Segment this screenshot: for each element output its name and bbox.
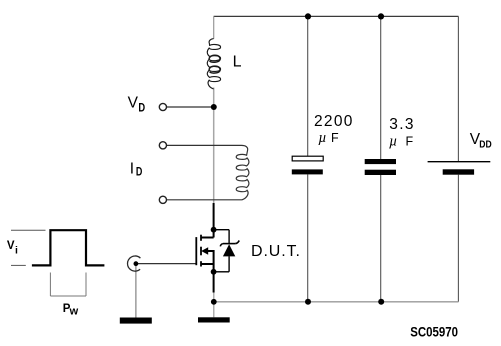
- svg-text:L: L: [233, 54, 242, 71]
- svg-text:SC05970: SC05970: [410, 325, 458, 340]
- svg-text:D: D: [138, 102, 145, 115]
- svg-text:i: i: [15, 244, 18, 256]
- svg-text:F: F: [331, 131, 339, 145]
- svg-text:2200: 2200: [314, 113, 354, 130]
- svg-text:V: V: [7, 240, 15, 252]
- svg-text:µ: µ: [389, 134, 397, 150]
- svg-text:D: D: [136, 167, 142, 179]
- svg-text:µ: µ: [318, 130, 326, 146]
- svg-text:DD: DD: [479, 139, 491, 151]
- svg-text:V: V: [128, 95, 139, 112]
- svg-text:I: I: [130, 160, 134, 177]
- svg-text:F: F: [406, 134, 414, 148]
- svg-text:w: w: [69, 306, 79, 318]
- svg-text:D.U.T.: D.U.T.: [251, 243, 301, 260]
- svg-text:3.3: 3.3: [389, 116, 414, 133]
